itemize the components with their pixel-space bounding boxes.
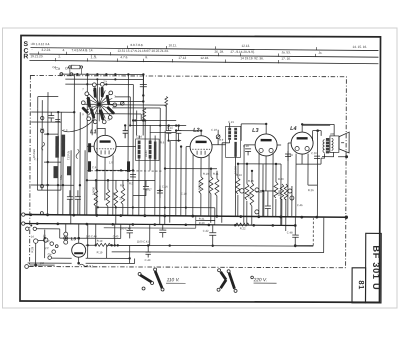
PSU labels <box>45 234 150 256</box>
svg-text:27. /3.14.20./4.9].: 27. /3.14.20./4.9]. <box>230 50 254 54</box>
heater branch y251.5 <box>112 217 324 253</box>
cap C30 <box>314 156 320 159</box>
svg-text:C.42: C.42 <box>203 229 209 233</box>
svg-text:BF 301 U: BF 301 U <box>371 245 381 290</box>
voltage selector plug 220V <box>217 269 277 293</box>
svg-text:1P.2mH: 1P.2mH <box>32 149 36 158</box>
fuse terminals <box>30 234 55 267</box>
svg-text:a.C: a.C <box>46 239 50 243</box>
wires L2 zone <box>165 141 217 223</box>
svg-text:C.21: C.21 <box>228 120 234 124</box>
svg-text:13.51 15.17.N.21.18.6/7.10.22: 13.51 15.17.N.21.18.6/7.10.22.21.24. <box>117 49 168 53</box>
table rule under C <box>29 54 378 57</box>
rectifier tube L5 <box>71 236 86 257</box>
svg-text:100 C.44: 100 C.44 <box>86 234 97 238</box>
PSU dots <box>43 237 131 265</box>
antenna terminal b <box>70 73 73 76</box>
wire y96 left <box>38 97 59 109</box>
L1 cathode resistors <box>94 187 125 206</box>
svg-text:4.7.6.: 4.7.6. <box>120 55 128 59</box>
svg-text:R: R <box>23 53 28 60</box>
cap C27b circle <box>255 210 259 214</box>
svg-text:R.6: R.6 <box>160 141 165 145</box>
bus B1 (HT) <box>25 215 347 218</box>
wires L3 zone <box>238 150 288 231</box>
table rule under S <box>30 48 378 51</box>
svg-text:Ja. 53.: Ja. 53. <box>281 50 290 54</box>
border frame <box>20 36 381 303</box>
IF transformer T1 <box>136 139 160 161</box>
svg-text:12.16.: 12.16. <box>200 56 209 60</box>
svg-text:1.0: 1.0 <box>109 160 113 164</box>
svg-text:R.10: R.10 <box>203 172 209 176</box>
dots L3 zone <box>237 123 278 193</box>
cap C15 pair <box>166 124 181 141</box>
L3 leads <box>244 124 273 216</box>
cap C2 <box>55 120 60 122</box>
svg-text:C.1: C.1 <box>40 127 45 131</box>
svg-text:C.3: C.3 <box>63 128 68 132</box>
verticals between L1 and L2 <box>165 131 181 225</box>
svg-text:R.29: R.29 <box>30 246 34 252</box>
rotary switch S1 <box>81 79 116 124</box>
switch output wires <box>96 74 186 130</box>
choke bobbin <box>64 232 68 244</box>
svg-text:R.18: R.18 <box>256 190 262 194</box>
trimmer cap T2 input <box>216 130 220 145</box>
antenna coil A1 <box>55 136 59 158</box>
svg-text:R.30: R.30 <box>199 221 205 225</box>
svg-text:14. 15. 16.: 14. 15. 16. <box>352 45 367 49</box>
svg-text:1.5.: 1.5. <box>90 54 97 59</box>
padder cap K7 <box>127 161 130 172</box>
svg-text:C.19: C.19 <box>211 128 217 132</box>
svg-text:19.21.20.: 19.21.20. <box>30 54 43 58</box>
svg-text:0.1: 0.1 <box>119 196 123 200</box>
wire y84 <box>65 83 133 85</box>
svg-text:5.0000: 5.0000 <box>92 187 96 195</box>
svg-text:2.Mg: 2.Mg <box>248 192 252 198</box>
cap C27 circle <box>255 188 259 192</box>
svg-text:C.43: C.43 <box>145 258 151 262</box>
svg-text:R.20: R.20 <box>278 177 284 181</box>
osc coil R25 <box>143 108 146 121</box>
cap C9 <box>130 174 136 177</box>
heater wire dots <box>111 244 297 247</box>
L3 zone resistors <box>236 178 288 206</box>
L5 leads <box>78 238 80 263</box>
svg-text:R.9: R.9 <box>219 138 224 142</box>
table row S entries <box>30 42 367 49</box>
svg-text:R.19: R.19 <box>97 250 103 254</box>
svg-text:3: 3 <box>114 94 116 98</box>
padder cap K6a <box>88 143 91 152</box>
svg-text:C.46: C.46 <box>297 203 303 207</box>
fuse Si <box>69 65 83 74</box>
L2 leads <box>176 131 209 216</box>
antenna labels Ca Of <box>52 65 69 71</box>
svg-text:220 V.: 220 V. <box>253 277 268 283</box>
svg-text:M.2: M.2 <box>89 264 94 268</box>
svg-text:Jc.: Jc. <box>318 51 322 55</box>
wire AVC bus y207 <box>98 207 215 216</box>
PSU wires <box>28 224 150 263</box>
svg-text:L3: L3 <box>252 128 258 134</box>
svg-text:R.4: R.4 <box>120 183 125 187</box>
svg-text:110 V.: 110 V. <box>167 277 180 283</box>
IF transformer T2 <box>226 126 241 157</box>
bus B3 thin <box>104 224 196 228</box>
wires L4 zone <box>302 132 321 217</box>
svg-text:R.5: R.5 <box>129 181 134 185</box>
resistor R22 zigzag on heater bus <box>236 223 249 230</box>
L4 leads <box>288 125 330 217</box>
table tick marks <box>38 45 316 63</box>
speaker <box>339 132 349 153</box>
cap C29b circle <box>290 196 294 200</box>
svg-text:7.4.5.M.4.B. 14.: 7.4.5.M.4.B. 14. <box>71 48 93 52</box>
long verticals x128 x133 <box>128 74 177 215</box>
svg-text:14: 14 <box>31 235 35 239</box>
tube L3 <box>252 128 277 156</box>
svg-text:4.: 4. <box>62 48 65 52</box>
dots switch wires <box>124 94 178 127</box>
dots L2 zone <box>164 129 213 170</box>
svg-text:C.45: C.45 <box>113 234 119 238</box>
cap C25 <box>140 74 147 95</box>
chassis boundary (dash-dot) <box>30 76 347 268</box>
svg-text::29 1.3.12 3.4.: :29 1.3.12 3.4. <box>30 42 50 46</box>
svg-text:4.5u: 4.5u <box>59 174 63 180</box>
svg-text:12.13.: 12.13. <box>241 44 250 48</box>
svg-text:100·C.40: 100·C.40 <box>120 226 132 230</box>
svg-text:C.28: C.28 <box>243 144 249 148</box>
antenna coil A3 <box>53 166 58 178</box>
tube L2 <box>190 128 212 158</box>
sheet number box 81 <box>352 268 366 303</box>
svg-text:6.9.7.8.8.: 6.9.7.8.8. <box>130 43 143 47</box>
svg-text:1100 C.41: 1100 C.41 <box>137 239 150 243</box>
svg-text:10.000: 10.000 <box>234 166 238 174</box>
wire switch feeds <box>87 74 137 146</box>
svg-text:L1: L1 <box>90 129 96 135</box>
padder cap K6 <box>88 161 91 172</box>
svg-text:81: 81 <box>357 280 366 289</box>
antenna terminal a <box>60 73 63 76</box>
link coupling squiggle <box>42 142 45 150</box>
resistor R30 box <box>196 220 215 225</box>
cap C33 below bus <box>159 225 166 238</box>
cap C48 below bus <box>287 217 314 247</box>
svg-text:C.17: C.17 <box>146 187 152 191</box>
coupling squiggle 2 <box>76 149 79 159</box>
cap C8 <box>75 190 81 215</box>
svg-text:0.Mg: 0.Mg <box>277 190 281 196</box>
PSU terminals <box>25 242 58 269</box>
bus B2 (heater/neutral) <box>25 224 296 226</box>
wire top bus y74 <box>60 73 143 75</box>
voltage selector plug 110V <box>138 268 186 291</box>
output transformer AW <box>323 132 339 154</box>
svg-text:C.15: C.15 <box>167 126 173 130</box>
coupling arc from switch <box>62 119 94 132</box>
M2 motor symbol <box>80 264 94 268</box>
svg-text:2.: 2. <box>58 55 61 59</box>
cap C1 <box>48 112 54 122</box>
table rule under R <box>29 60 378 63</box>
rotated value labels <box>32 149 281 200</box>
svg-text:17.13: 17.13 <box>178 56 186 60</box>
cap C24 <box>123 125 129 138</box>
dots L1 zone <box>62 119 162 192</box>
svg-text:9: 9 <box>82 112 84 116</box>
svg-text:AF.41: AF.41 <box>144 150 148 157</box>
svg-text:17. 16.: 17. 16. <box>281 57 291 61</box>
cap C7 <box>67 190 73 215</box>
trimmer cap <box>120 101 124 105</box>
tube L4 <box>290 126 313 154</box>
svg-text:a: a <box>91 105 93 108</box>
svg-text:R.22: R.22 <box>240 226 246 230</box>
svg-text:10.11.: 10.11. <box>168 43 177 47</box>
svg-text:C 48: C 48 <box>287 231 293 235</box>
svg-text:3.2.24.: 3.2.24. <box>41 48 51 52</box>
left antenna section verticals <box>37 74 74 215</box>
antenna coil A2 <box>62 135 65 157</box>
scattered value labels <box>34 119 318 255</box>
svg-text:4.7000: 4.7000 <box>112 192 116 200</box>
left antenna horizontals <box>31 112 74 190</box>
bus junction dots <box>29 213 348 227</box>
svg-text:d.C: d.C <box>45 246 49 250</box>
L2 screen resistors <box>199 177 219 196</box>
AW leads <box>302 124 347 158</box>
svg-text:R.11: R.11 <box>213 172 219 176</box>
svg-text:L4: L4 <box>290 126 296 132</box>
antenna terminal circles <box>40 116 44 214</box>
svg-text:50.000: 50.000 <box>198 182 202 190</box>
svg-text:C.18: C.18 <box>181 192 187 196</box>
cap C28 <box>245 149 251 156</box>
junction dots left <box>46 111 75 187</box>
svg-text:C.16: C.16 <box>162 185 168 189</box>
svg-text:C.29: C.29 <box>287 153 293 157</box>
wire L1 to T1 <box>116 144 281 147</box>
wire screen bus y163 <box>296 163 302 165</box>
cap C43 <box>145 245 151 262</box>
svg-text:R.19: R.19 <box>97 239 103 243</box>
cap C40 below bus <box>120 224 133 238</box>
svg-text:8.: 8. <box>145 55 148 59</box>
T1 leads <box>139 132 155 215</box>
svg-text:-: - <box>31 48 32 52</box>
AVC dash line <box>87 170 162 172</box>
cap C34 below bus <box>209 225 216 246</box>
svg-text:C.14: C.14 <box>136 134 142 138</box>
svg-text:2 h: 2 h <box>103 79 107 83</box>
L1 leads <box>87 125 113 215</box>
svg-text:C.6: C.6 <box>92 165 97 169</box>
resistor R19 zigzag <box>96 239 111 247</box>
cap C29m <box>285 151 291 161</box>
resistor R8 <box>165 97 168 131</box>
svg-text:R.16: R.16 <box>248 179 254 183</box>
bus terminals left <box>22 213 25 225</box>
cap C35 <box>265 206 271 216</box>
table row R entries <box>30 54 291 61</box>
svg-text:L5: L5 <box>71 236 77 241</box>
T2 leads <box>222 123 266 223</box>
cap C26 circle <box>240 189 244 193</box>
svg-text:R.26: R.26 <box>308 188 314 192</box>
table row C entries <box>31 48 322 55</box>
svg-text:26. 28.: 26. 28. <box>214 50 224 54</box>
svg-text:7: 7 <box>82 87 84 91</box>
model box BF 301 U <box>365 233 381 303</box>
svg-text:14 19.19. 92. 36.: 14 19.19. 92. 36. <box>240 56 263 60</box>
resistor R31 box <box>196 216 215 221</box>
junction dots top <box>76 73 144 86</box>
antenna coil A4 <box>67 166 71 175</box>
svg-text:T27P.IN: T27P.IN <box>67 151 71 160</box>
cap C17 <box>133 180 149 195</box>
heater return wire y245 <box>118 244 313 247</box>
svg-text:C.30: C.30 <box>311 151 317 155</box>
decoupling cluster right <box>260 186 292 216</box>
cap C29 circle <box>288 189 292 193</box>
wire y79 <box>65 78 143 80</box>
tube L1 <box>90 129 116 157</box>
wires L1 zone <box>63 112 160 224</box>
svg-text:OA: OA <box>52 65 56 69</box>
mains terminal pair <box>26 225 60 239</box>
cap C10 <box>157 186 163 199</box>
